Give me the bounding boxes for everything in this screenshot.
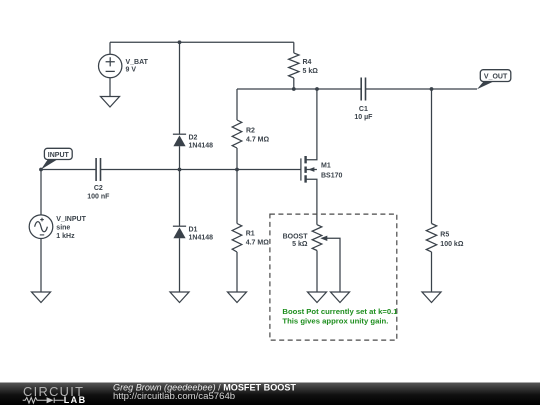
mosfet M1 [301, 156, 317, 183]
resistor R2 [232, 120, 242, 148]
wire R4 bottom lead [293, 78, 295, 89]
wire pot bottom lead [316, 251, 318, 293]
ground (wiper) [331, 292, 350, 303]
net flag V_OUT [477, 70, 511, 90]
svg-text:4.7 MΩ: 4.7 MΩ [246, 137, 270, 144]
svg-text:R5: R5 [440, 231, 449, 238]
svg-text:C2: C2 [94, 185, 103, 192]
label R1 [246, 231, 270, 247]
resistor R5 [426, 224, 436, 252]
label C2 [87, 185, 110, 200]
label M1 [321, 163, 343, 180]
wire R2 bottom lead [236, 148, 238, 170]
label D2 [189, 134, 214, 149]
svg-text:100 nF: 100 nF [87, 193, 110, 200]
annotation dashed box [270, 214, 397, 340]
wire pot wiper [326, 238, 340, 292]
ground (pot) [308, 292, 327, 303]
wire V_BAT top stem [109, 42, 111, 54]
svg-text:BS170: BS170 [321, 172, 343, 179]
svg-text:INPUT: INPUT [48, 152, 70, 159]
ground (diode column) [170, 292, 189, 303]
svg-text:1 kHz: 1 kHz [56, 233, 75, 240]
wire R1 bottom lead [236, 252, 238, 292]
node junction main rail D column [178, 168, 182, 172]
net flag INPUT [41, 148, 72, 169]
ground (V_BAT) [101, 97, 120, 108]
svg-text:10 µF: 10 µF [354, 114, 373, 121]
svg-text:D2: D2 [189, 134, 198, 141]
logo waveform [23, 398, 64, 404]
label V_INPUT [56, 216, 86, 240]
label D1 [189, 226, 214, 241]
svg-text:M1: M1 [321, 163, 331, 170]
wire R2 top lead [236, 89, 238, 120]
svg-text:5 kΩ: 5 kΩ [303, 68, 319, 75]
resistor R1 [232, 224, 242, 253]
wire R4 top lead [293, 42, 295, 53]
svg-text:R4: R4 [303, 59, 312, 66]
voltage source V_INPUT [29, 215, 53, 239]
node junction top rail [178, 40, 182, 44]
svg-text:R1: R1 [246, 231, 255, 238]
svg-text:V_BAT: V_BAT [126, 59, 149, 66]
svg-text:Boost Pot currently set at k=0: Boost Pot currently set at k=0.1 [282, 307, 398, 316]
capacitor C2 [96, 158, 100, 181]
capacitor C1 [361, 78, 365, 101]
node junction R4 bottom [292, 87, 296, 91]
svg-text:1N4148: 1N4148 [189, 234, 214, 241]
voltage source V_BAT [99, 54, 122, 77]
label C1 [354, 106, 373, 121]
wire M1 source to pot [306, 179, 317, 225]
svg-text:V_OUT: V_OUT [484, 74, 508, 81]
diode D1 [173, 226, 186, 238]
wire V_INPUT bottom stem [40, 239, 42, 293]
wire D1 to ground [179, 238, 181, 292]
wire R5 top lead [431, 89, 433, 224]
svg-text:1N4148: 1N4148 [189, 143, 214, 150]
node junction main rail R column [235, 168, 239, 172]
svg-text:V_INPUT: V_INPUT [56, 216, 86, 223]
svg-text:http://circuitlab.com/ca5764b: http://circuitlab.com/ca5764b [113, 391, 235, 402]
ground (R1) [228, 292, 247, 303]
svg-text:9 V: 9 V [126, 66, 137, 73]
svg-text:BOOST: BOOST [283, 234, 309, 241]
wire second rail left of C1 [237, 88, 361, 90]
footer bar [0, 383, 540, 405]
label BOOST [283, 234, 309, 249]
svg-text:LAB: LAB [64, 395, 87, 405]
diode D2 [173, 134, 186, 146]
node junction M1 drain [315, 87, 319, 91]
wire R5 bottom lead [431, 252, 433, 292]
wire R1 top lead [236, 170, 238, 224]
wire V_INPUT top stem [40, 170, 42, 215]
wire diode column upper [179, 42, 181, 134]
wire V_BAT bottom stem [109, 78, 111, 97]
label R2 [246, 128, 270, 144]
wire D2 to D1 [179, 146, 181, 226]
label R5 [440, 231, 464, 248]
svg-text:sine: sine [56, 225, 70, 232]
node junction R5 top [430, 87, 434, 91]
wire top rail [110, 41, 294, 43]
svg-text:5 kΩ: 5 kΩ [292, 241, 308, 248]
ground (V_INPUT) [32, 292, 51, 303]
svg-text:C1: C1 [359, 106, 368, 113]
wire second rail right of C1 [366, 88, 478, 90]
ground (R5) [422, 292, 441, 303]
svg-text:4.7 MΩ: 4.7 MΩ [246, 240, 270, 247]
wire main rail left of C2 [41, 169, 96, 171]
resistor R4 [289, 53, 299, 78]
wire main rail right of C2 [101, 169, 301, 171]
svg-text:D1: D1 [189, 226, 198, 233]
label R4 [303, 59, 319, 75]
potentiometer BOOST [312, 225, 327, 251]
node INPUT [39, 168, 43, 172]
svg-text:R2: R2 [246, 128, 255, 135]
label V_BAT [126, 59, 149, 73]
wire M1 drain [306, 89, 317, 160]
svg-text:This gives approx unity gain.: This gives approx unity gain. [282, 317, 388, 326]
svg-text:100 kΩ: 100 kΩ [440, 241, 464, 248]
